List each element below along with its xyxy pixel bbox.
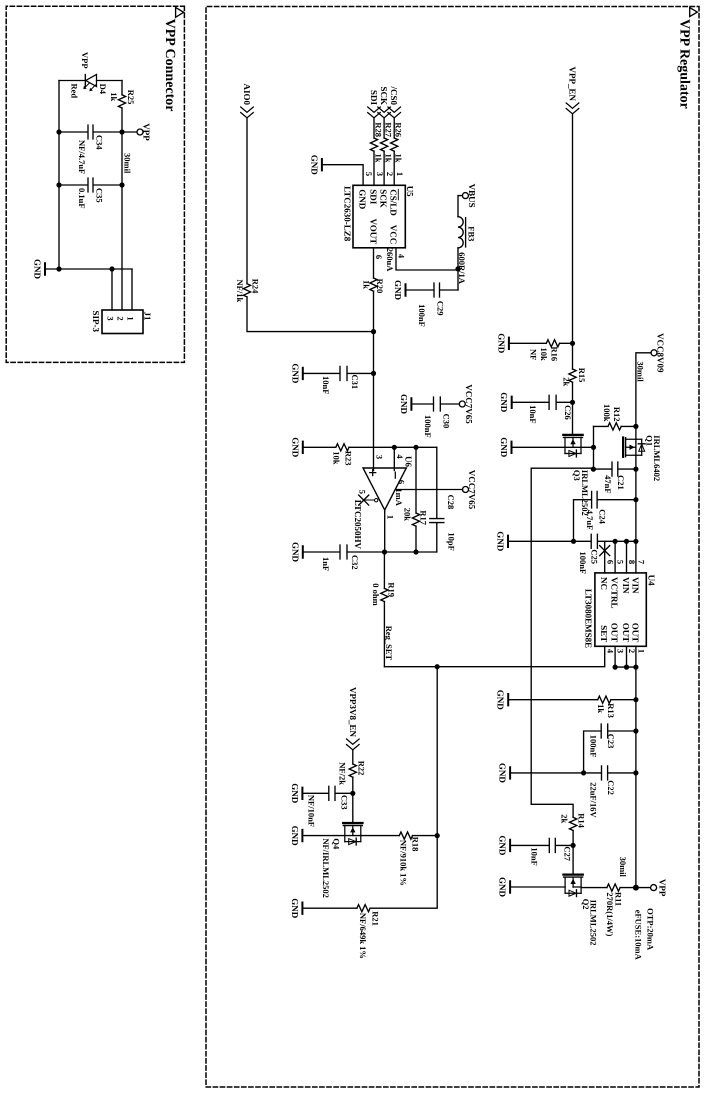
svg-text:SDI: SDI bbox=[369, 90, 379, 106]
svg-text:VIN: VIN bbox=[630, 577, 640, 594]
svg-text:Red: Red bbox=[70, 84, 80, 99]
resistor R28 bbox=[370, 138, 377, 151]
pin 2 OUT bbox=[626, 646, 628, 667]
svg-text:22uF/16V: 22uF/16V bbox=[589, 782, 599, 818]
VPP Regulator sheet box bbox=[206, 7, 699, 1088]
svg-text:Reg_SET: Reg_SET bbox=[384, 626, 394, 661]
sheet corner triangle bbox=[176, 7, 184, 17]
svg-text:CS/LD: CS/LD bbox=[389, 189, 399, 216]
svg-text:NF/4.7uF: NF/4.7uF bbox=[77, 140, 87, 174]
ground R16 bbox=[496, 333, 509, 354]
svg-text:260uA: 260uA bbox=[385, 248, 395, 272]
svg-text:R14: R14 bbox=[577, 813, 587, 828]
svg-text:30mil: 30mil bbox=[618, 857, 628, 878]
svg-text:20k: 20k bbox=[403, 508, 413, 522]
svg-text:R19: R19 bbox=[386, 582, 396, 597]
svg-text:C23: C23 bbox=[606, 734, 616, 749]
svg-text:1: 1 bbox=[386, 515, 396, 519]
ground C25 bbox=[496, 531, 509, 552]
wire VPP_EN rail bbox=[572, 114, 574, 369]
resistor R21 NF/649k bbox=[357, 905, 370, 912]
IC U5 LTC2630-LZ8 bbox=[353, 185, 405, 248]
wire bbox=[352, 750, 354, 764]
wire VBUS stub bbox=[458, 196, 462, 217]
node AIO0 join bbox=[371, 329, 376, 334]
transistor Q3 IRLML2502 bbox=[563, 435, 582, 457]
svg-text:R26: R26 bbox=[394, 122, 404, 137]
svg-text:1k: 1k bbox=[596, 704, 606, 713]
svg-text:3: 3 bbox=[106, 316, 116, 320]
IC U4 LT3080EMS8E bbox=[595, 573, 646, 646]
svg-text:C26: C26 bbox=[563, 405, 573, 420]
svg-text:R22: R22 bbox=[356, 761, 366, 776]
svg-text:0 ohm: 0 ohm bbox=[371, 583, 381, 605]
capacitor C33 NF/10nF bbox=[302, 786, 352, 800]
svg-text:100nF: 100nF bbox=[417, 304, 427, 327]
svg-text:10nF: 10nF bbox=[321, 376, 331, 394]
capacitor C29 100nF bbox=[406, 283, 459, 297]
wire right feedback vertical bbox=[347, 551, 437, 553]
wire gate node down and across to Q2 gate bbox=[531, 468, 593, 817]
svg-text:4: 4 bbox=[605, 649, 615, 654]
ground C31 bbox=[290, 363, 303, 384]
svg-text:Q2: Q2 bbox=[581, 899, 591, 910]
svg-text:6: 6 bbox=[605, 560, 615, 564]
wire GND drop bbox=[45, 268, 132, 270]
ground Q3 bbox=[499, 437, 512, 458]
svg-text:C32: C32 bbox=[350, 555, 360, 570]
resistor R15 2k bbox=[569, 369, 576, 382]
svg-text:1k: 1k bbox=[384, 154, 394, 163]
svg-text:OUT: OUT bbox=[630, 623, 640, 643]
svg-text:C25: C25 bbox=[589, 549, 599, 564]
resistor R17 20k bbox=[415, 447, 417, 513]
svg-text:NF/IRLML2502: NF/IRLML2502 bbox=[321, 838, 331, 898]
svg-text:NF/1k: NF/1k bbox=[235, 280, 245, 303]
resistor R14 2k bbox=[570, 817, 577, 830]
pin 8 VIN bbox=[626, 541, 628, 573]
svg-text:R17: R17 bbox=[419, 510, 429, 525]
svg-text:C22: C22 bbox=[606, 780, 616, 795]
svg-text:C33: C33 bbox=[339, 795, 349, 810]
svg-text:10nF: 10nF bbox=[528, 405, 538, 423]
capacitor C23 100nF bbox=[584, 724, 636, 773]
svg-text:NC: NC bbox=[599, 577, 609, 590]
ground C29 bbox=[393, 280, 406, 301]
svg-text:1k: 1k bbox=[394, 154, 404, 163]
svg-text:VPP: VPP bbox=[658, 879, 668, 897]
port VCC8V09 bbox=[651, 350, 657, 356]
svg-text:R25: R25 bbox=[126, 90, 136, 105]
wire OUT pins tie bbox=[615, 666, 636, 668]
ground connector bbox=[33, 259, 46, 280]
wire bbox=[383, 118, 385, 138]
svg-text:VPP: VPP bbox=[80, 52, 90, 69]
VPP Connector sheet box bbox=[6, 6, 184, 362]
resistor R20 bbox=[370, 278, 377, 291]
resistor R13 1k bbox=[611, 699, 636, 701]
svg-text:C29: C29 bbox=[435, 301, 445, 316]
pin 4 SET bbox=[384, 646, 604, 666]
svg-text:D4: D4 bbox=[98, 84, 108, 95]
resistor R23 10k bbox=[336, 444, 349, 451]
svg-text:OUT: OUT bbox=[621, 623, 631, 643]
wire VCC8V09 rail bbox=[636, 353, 651, 573]
svg-text:Q1: Q1 bbox=[645, 435, 655, 446]
capacitor C28 10pF bbox=[430, 519, 444, 523]
svg-text:FB3: FB3 bbox=[467, 226, 477, 241]
ground C30 bbox=[399, 394, 412, 415]
svg-text:VCC7V65: VCC7V65 bbox=[464, 384, 474, 424]
ground C22 bbox=[498, 763, 511, 784]
svg-text:2k: 2k bbox=[561, 377, 571, 386]
op-amp pin5 no-connect bbox=[375, 499, 378, 502]
svg-text:VIN: VIN bbox=[621, 577, 631, 594]
svg-text:SCK: SCK bbox=[379, 86, 389, 105]
capacitor C25 100nF bbox=[508, 534, 636, 548]
wire rail B bbox=[58, 81, 60, 270]
svg-text:R12: R12 bbox=[612, 407, 622, 422]
wire bbox=[572, 382, 574, 435]
wire bbox=[572, 831, 574, 875]
svg-text:3: 3 bbox=[375, 172, 385, 176]
svg-text:5: 5 bbox=[616, 560, 626, 564]
svg-text:OTP:20mA: OTP:20mA bbox=[646, 908, 656, 951]
svg-text:C35: C35 bbox=[95, 188, 105, 203]
svg-text:R27: R27 bbox=[384, 122, 394, 137]
svg-text:LT3080EMS8E: LT3080EMS8E bbox=[584, 589, 594, 648]
svg-text:R15: R15 bbox=[577, 368, 587, 383]
svg-text:6: 6 bbox=[396, 480, 406, 484]
wire U5 pin4 VCC bbox=[396, 248, 458, 270]
capacitor C31 10nF bbox=[303, 366, 374, 380]
node R16 tap bbox=[570, 341, 575, 346]
svg-text:1: 1 bbox=[395, 172, 405, 176]
svg-text:J1: J1 bbox=[143, 312, 153, 322]
svg-text:10nF: 10nF bbox=[529, 847, 539, 865]
node Reg_SET branch bbox=[435, 664, 440, 669]
ground U5 bbox=[309, 155, 322, 176]
wire AIO0 up to VOUT rail bbox=[247, 297, 374, 332]
svg-text:LTC2050HV: LTC2050HV bbox=[353, 500, 363, 550]
node C33 tap bbox=[350, 791, 355, 796]
svg-text:30mil: 30mil bbox=[636, 361, 646, 382]
svg-text:10k: 10k bbox=[539, 348, 549, 362]
wire - input bbox=[393, 447, 395, 470]
connector J1 SIP-3 bbox=[102, 310, 143, 334]
node FB3/VCC bbox=[455, 266, 460, 271]
pin 5 VCTRL bbox=[614, 541, 616, 573]
wire OUT rail bbox=[635, 646, 637, 887]
svg-text:SIP-3: SIP-3 bbox=[91, 311, 101, 333]
capacitor C27 10nF bbox=[510, 838, 573, 852]
wire J1 pin3 bbox=[111, 269, 113, 310]
svg-text:VPP_EN: VPP_EN bbox=[568, 67, 578, 102]
wire C28 row bbox=[436, 447, 438, 552]
wire rail A to J1 bbox=[121, 108, 123, 310]
svg-text:3: 3 bbox=[616, 649, 626, 653]
svg-text:100nF: 100nF bbox=[589, 735, 599, 758]
svg-text:C30: C30 bbox=[442, 414, 452, 429]
svg-text:NF: NF bbox=[529, 349, 539, 360]
svg-text:SCK: SCK bbox=[379, 189, 389, 208]
ground C27 bbox=[498, 835, 511, 856]
svg-text:LTC2630-LZ8: LTC2630-LZ8 bbox=[343, 186, 353, 242]
svg-text:C24: C24 bbox=[598, 509, 608, 524]
svg-text:R21: R21 bbox=[370, 911, 380, 926]
capacitor C32 1nF bbox=[303, 545, 347, 559]
op-amp U6 supply VCC7V65 bbox=[463, 487, 469, 493]
svg-text:7: 7 bbox=[637, 560, 647, 565]
svg-text:30mil: 30mil bbox=[123, 153, 133, 174]
svg-text:NF/2k: NF/2k bbox=[338, 762, 348, 785]
svg-text:2k: 2k bbox=[560, 814, 570, 823]
op-amp U6 LTC2050HV bbox=[363, 468, 406, 510]
capacitor C34 NF/4.7uF bbox=[59, 125, 122, 139]
svg-text:VPP3V8_EN: VPP3V8_EN bbox=[348, 687, 358, 737]
wire left feedback vertical bbox=[349, 446, 437, 448]
wire Reg_SET bbox=[383, 602, 385, 667]
svg-text:100k: 100k bbox=[602, 404, 612, 422]
svg-text:5: 5 bbox=[358, 490, 368, 494]
svg-text:R20: R20 bbox=[375, 279, 385, 294]
svg-text:3: 3 bbox=[374, 455, 384, 459]
node VPP out bbox=[633, 885, 639, 891]
svg-text:NF/910k 1%: NF/910k 1% bbox=[398, 840, 408, 886]
wire bbox=[393, 118, 395, 138]
wire rail A bbox=[121, 81, 123, 95]
wire U5 pin5 to GND bbox=[322, 165, 363, 186]
svg-text:VOUT: VOUT bbox=[368, 218, 378, 244]
wire bbox=[393, 151, 395, 185]
svg-text:Q4: Q4 bbox=[332, 838, 342, 850]
resistor R19 0 ohm bbox=[381, 588, 388, 601]
svg-text:VBUS: VBUS bbox=[467, 184, 477, 208]
wire bbox=[457, 248, 459, 290]
svg-text:R23: R23 bbox=[344, 451, 354, 466]
svg-text:6: 6 bbox=[374, 255, 384, 259]
svg-text:100nF: 100nF bbox=[578, 552, 588, 575]
svg-text:R24: R24 bbox=[251, 279, 261, 294]
wire Q2 source to ground bbox=[510, 886, 565, 888]
wire bbox=[246, 118, 248, 284]
resistor R25 1k bbox=[118, 95, 125, 108]
svg-text:10pF: 10pF bbox=[446, 532, 456, 550]
pin 3 OUT bbox=[614, 646, 616, 667]
pin 6 NC bbox=[604, 541, 606, 573]
port VPP output bbox=[636, 887, 651, 889]
svg-text:1: 1 bbox=[637, 649, 647, 653]
svg-text:1k: 1k bbox=[374, 154, 384, 163]
svg-text:2: 2 bbox=[385, 172, 395, 176]
svg-text:SDI: SDI bbox=[368, 189, 378, 205]
svg-text:U5: U5 bbox=[405, 186, 415, 197]
svg-text:100nF: 100nF bbox=[423, 415, 433, 438]
svg-text:1mA: 1mA bbox=[394, 488, 404, 506]
ground R21 bbox=[290, 898, 303, 919]
svg-text:AIO0: AIO0 bbox=[242, 83, 252, 105]
wire Reg_SET branch bbox=[370, 667, 437, 909]
resistor R16 10k NF bbox=[560, 342, 573, 344]
svg-text:VPP: VPP bbox=[142, 123, 152, 141]
svg-text:1nF: 1nF bbox=[321, 557, 331, 571]
sheet corner triangle bbox=[690, 8, 698, 17]
LED D4 Red bbox=[97, 80, 123, 82]
svg-text:VCC: VCC bbox=[389, 225, 399, 245]
svg-text:C27: C27 bbox=[563, 846, 573, 861]
svg-text:1: 1 bbox=[126, 316, 136, 320]
svg-text:U4: U4 bbox=[647, 575, 657, 586]
svg-text:0.1uF: 0.1uF bbox=[77, 188, 87, 209]
svg-text:4.7uF: 4.7uF bbox=[585, 510, 595, 531]
ground C26 bbox=[499, 392, 512, 413]
ground C33 bbox=[290, 783, 303, 804]
resistor R12 100k bbox=[621, 425, 636, 427]
svg-text:SET: SET bbox=[599, 625, 609, 642]
resistor R22 NF/2k bbox=[349, 764, 356, 777]
svg-text:C28: C28 bbox=[446, 495, 456, 510]
svg-text:47nF: 47nF bbox=[603, 475, 613, 493]
svg-text:Q3: Q3 bbox=[572, 470, 582, 481]
svg-text:5: 5 bbox=[364, 172, 374, 176]
ferrite bead FB3 600R/1A bbox=[458, 217, 463, 248]
wire J1 pin1 bbox=[131, 269, 133, 310]
svg-text:VCC7V65: VCC7V65 bbox=[467, 470, 477, 510]
svg-text:8: 8 bbox=[627, 560, 637, 564]
ground R23 bbox=[290, 437, 303, 458]
node Q1 gate bbox=[591, 445, 596, 450]
port VPP (connector) bbox=[122, 131, 137, 133]
svg-text:eFUSE:10mA: eFUSE:10mA bbox=[634, 910, 644, 961]
wire bbox=[373, 151, 375, 185]
svg-text:270R(1/4W): 270R(1/4W) bbox=[605, 892, 615, 936]
svg-text:R28: R28 bbox=[374, 122, 384, 137]
ground C32 bbox=[290, 542, 303, 563]
ground Q4 bbox=[290, 826, 303, 847]
svg-text:VPP Regulator: VPP Regulator bbox=[677, 19, 692, 109]
transistor Q2 IRLML2502 bbox=[563, 875, 582, 897]
resistor R27 bbox=[381, 138, 388, 151]
capacitor C24 4.7uF bbox=[574, 491, 636, 541]
port VCC7V65 (C30) bbox=[459, 401, 465, 407]
resistor R18 NF/910k bbox=[435, 833, 440, 838]
ground R13 bbox=[496, 690, 509, 711]
svg-text:1k: 1k bbox=[362, 280, 372, 289]
wire bbox=[373, 118, 375, 138]
svg-text:C31: C31 bbox=[350, 375, 360, 390]
svg-text:VCC8V09: VCC8V09 bbox=[656, 333, 666, 373]
node C26 tap bbox=[570, 400, 575, 405]
resistor R26 bbox=[391, 138, 398, 151]
capacitor C30 100nF bbox=[411, 397, 459, 411]
svg-text:R16: R16 bbox=[550, 347, 560, 362]
svg-text:GND: GND bbox=[358, 189, 368, 210]
svg-text:NF/10nF: NF/10nF bbox=[307, 795, 317, 827]
ground Q2 bbox=[498, 877, 511, 898]
wire op-amp output bbox=[383, 510, 385, 588]
capacitor C26 10nF bbox=[512, 395, 573, 409]
svg-text:VPP Connector: VPP Connector bbox=[162, 19, 177, 112]
svg-text:R13: R13 bbox=[606, 703, 616, 718]
svg-text:2: 2 bbox=[116, 316, 126, 320]
resistor R11 270R bbox=[620, 887, 636, 889]
wire Q3 drain/source vertical bbox=[512, 446, 594, 448]
svg-text:4: 4 bbox=[397, 254, 407, 259]
svg-text:VCTRL: VCTRL bbox=[610, 577, 620, 609]
svg-text:10k: 10k bbox=[332, 451, 342, 465]
capacitor C35 0.1uF bbox=[59, 178, 122, 192]
transistor Q4 NF/IRLML2502 bbox=[343, 823, 362, 845]
svg-text:C34: C34 bbox=[95, 135, 105, 150]
svg-text:OUT: OUT bbox=[610, 623, 620, 643]
wire VOUT rail to op-amp + input bbox=[373, 291, 375, 470]
node R12 top bbox=[633, 424, 638, 429]
transistor Q1 IRLML6402 bbox=[623, 438, 645, 457]
wire bbox=[352, 777, 354, 823]
svg-text:/CS0: /CS0 bbox=[389, 85, 399, 105]
port VBUS bbox=[462, 193, 468, 199]
wire U5 pin6 VOUT bbox=[373, 248, 375, 278]
svg-text:1k: 1k bbox=[109, 92, 119, 101]
wire gate node bbox=[593, 426, 595, 469]
svg-text:NF/649k 1%: NF/649k 1% bbox=[358, 913, 368, 959]
no-connect X pin6 bbox=[600, 546, 610, 556]
resistor R24 NF/1k bbox=[243, 284, 250, 297]
capacitor C21 47nF bbox=[593, 462, 636, 476]
svg-text:C21: C21 bbox=[616, 475, 626, 490]
svg-text:R18: R18 bbox=[411, 837, 421, 852]
capacitor C22 22uF/16V bbox=[510, 766, 636, 780]
wire bbox=[383, 151, 385, 185]
